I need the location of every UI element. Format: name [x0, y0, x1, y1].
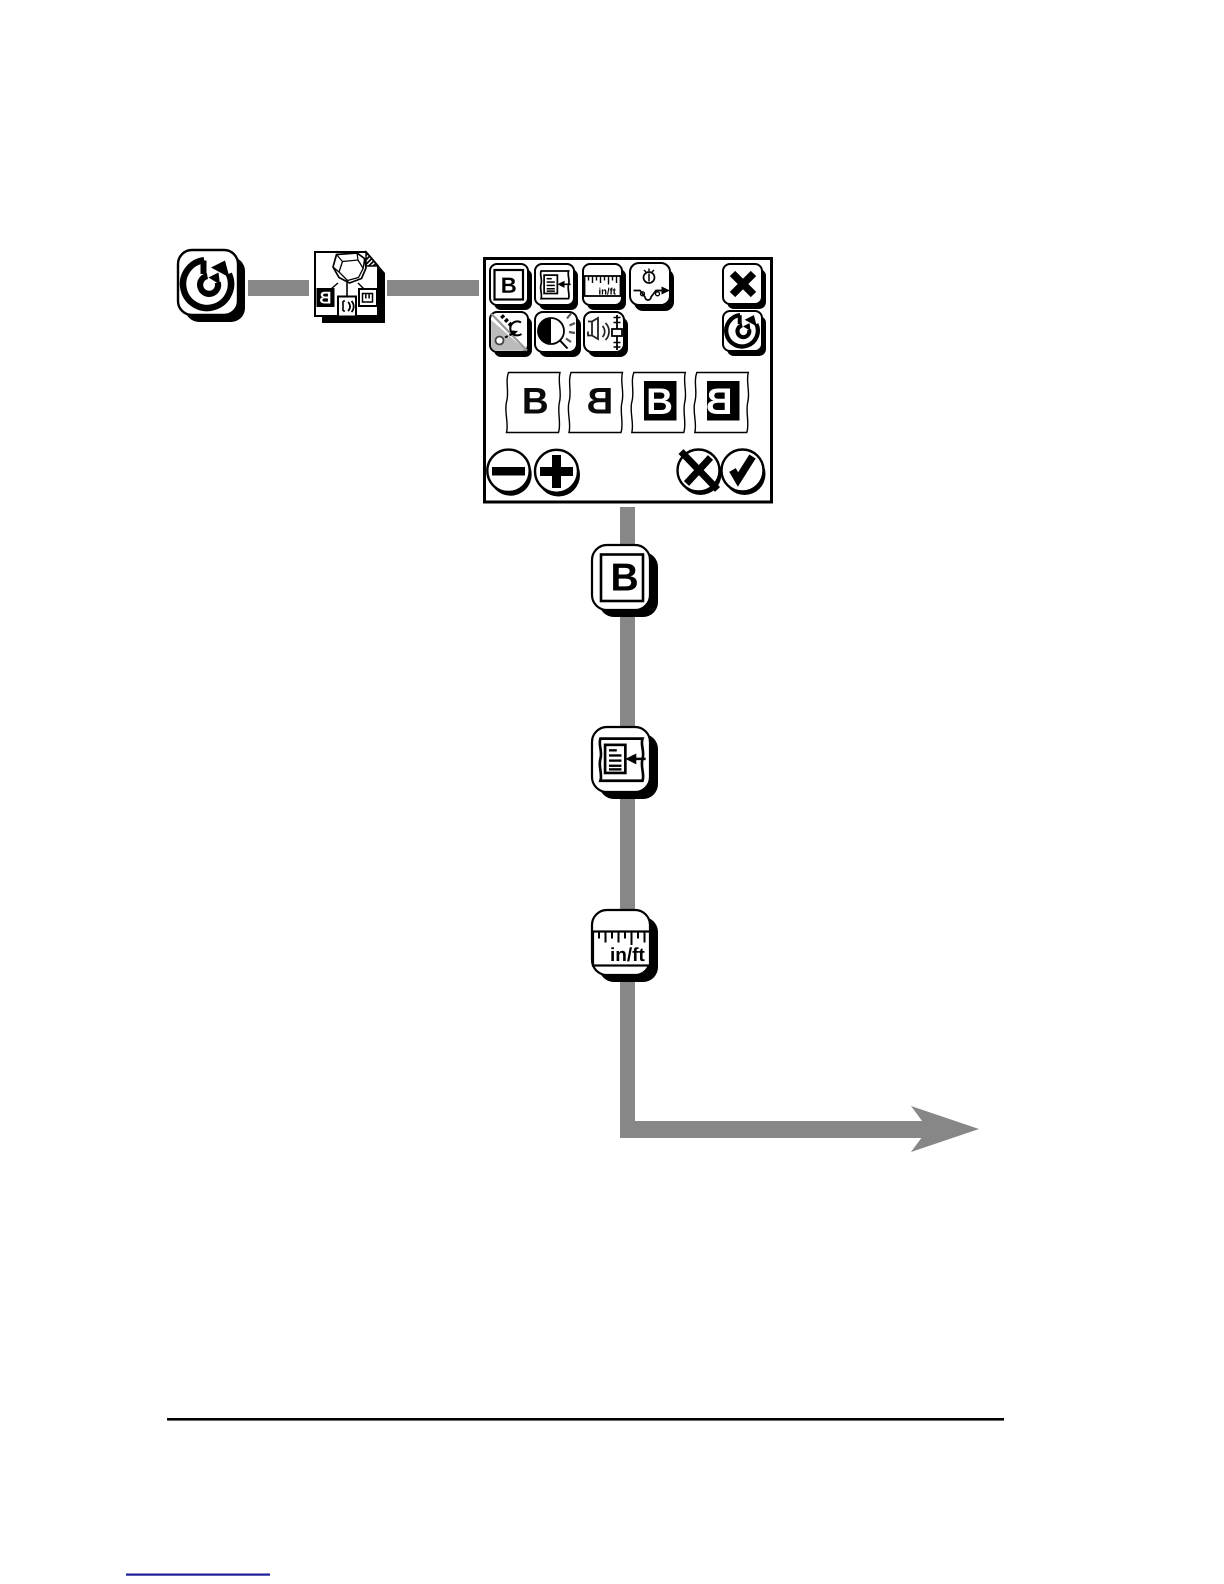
panel btn: restart [723, 311, 766, 356]
preview box 2: mirrored B [568, 373, 623, 433]
gem [333, 253, 366, 283]
wire: horizontal gray line of elbow [620, 1121, 935, 1138]
connectors [346, 282, 348, 299]
settings panel frame [485, 259, 772, 503]
minus button [487, 450, 531, 496]
panel btn: ruler in/ft [583, 264, 626, 310]
panel btn: audio [584, 312, 628, 357]
panel btn: contrast [535, 312, 581, 357]
flowchart icon: ruler in/ft [592, 910, 658, 982]
ok button [722, 450, 766, 496]
arrowhead right [911, 1106, 979, 1152]
B sub-icon (mirrored white B on black) [317, 288, 335, 307]
panel btn: thread sensor [630, 263, 674, 311]
panel btn: close X [723, 264, 766, 309]
plus button [535, 450, 580, 497]
flowchart icon: stitch/doc [592, 727, 658, 799]
wire: gray connector from defaults icon to SET file icon [248, 280, 309, 296]
sound sub-icon [338, 297, 356, 317]
defaults button (top-left, spiral arrow) [178, 250, 245, 322]
panel btn: stitch/doc [535, 264, 578, 310]
SET file icon (page with gem and sub-icons) [315, 252, 385, 323]
wire: gray connector from SET file icon to panel [387, 280, 479, 296]
ruler sub-icon [359, 289, 377, 306]
preview box 3: inverse B [631, 373, 686, 433]
footer rule [167, 1418, 1004, 1421]
panel btn: disabled thread-cutter [490, 312, 532, 357]
panel btn: mirror B [490, 264, 532, 310]
cancel button [678, 450, 722, 496]
footer link line [126, 1574, 270, 1576]
preview box 4: inverse mirrored B [694, 373, 749, 433]
flowchart icon: mirror B [592, 545, 658, 617]
wire: vertical gray line from panel bottom to elbow [620, 507, 635, 1138]
preview box 1: normal B [506, 373, 561, 433]
